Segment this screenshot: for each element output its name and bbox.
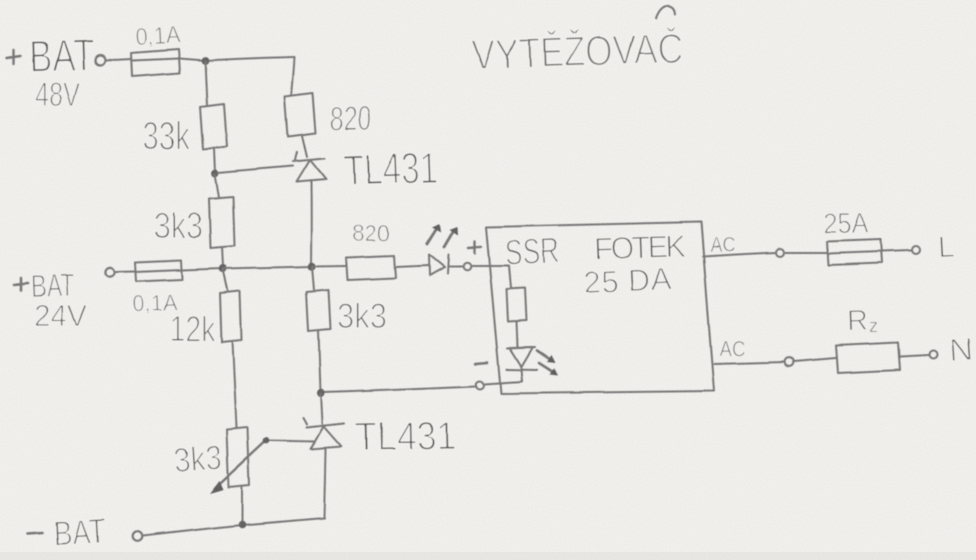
wire SSR minus to node E xyxy=(323,386,476,392)
wire R3 to TL431 U1 cathode xyxy=(302,136,307,157)
plus sign at SSR input xyxy=(468,241,481,254)
wire internal resistor to LED D2 xyxy=(517,322,518,347)
wire terminal to resistor Rz xyxy=(793,358,836,362)
internal LED D2 xyxy=(507,348,538,371)
label +BAT 48V xyxy=(29,29,95,113)
terminal N xyxy=(930,351,938,359)
SSR U3 box FOTEK 25DA xyxy=(486,222,714,394)
wire node D down to resistor R6 3k3 xyxy=(312,267,314,290)
wire node A down to resistor R1 33k xyxy=(205,61,207,105)
wire R2 to 24V rail xyxy=(222,247,223,266)
TL431 U2 xyxy=(303,418,344,519)
terminal -BAT xyxy=(132,532,142,542)
fuse F3 25A xyxy=(827,240,883,266)
wire terminal to fuse F1 xyxy=(105,59,131,60)
fuse F1 xyxy=(131,50,180,77)
wire node C to node D xyxy=(223,267,312,269)
wire U3 AC top to terminal xyxy=(703,253,776,257)
minus sign at SSR input xyxy=(476,363,488,364)
resistor R2 3k3 xyxy=(209,197,235,249)
terminal +BAT 48V xyxy=(95,55,105,65)
terminal SSR plus xyxy=(463,263,471,271)
resistor R3 820 xyxy=(285,93,316,137)
wire R1 to node B xyxy=(214,149,215,173)
TL431 U1 xyxy=(293,152,326,265)
resistor R7 820 xyxy=(346,256,396,281)
wire D2 to SSR minus terminal xyxy=(484,368,523,384)
wire F1 to corner of R3 820 xyxy=(179,57,295,61)
wire F3 to terminal L xyxy=(883,251,912,252)
LED arrows of D1 xyxy=(427,224,458,247)
junction node E (R6 / U2 cathode / SSR minus) xyxy=(317,389,325,397)
wire down to resistor R3 820 xyxy=(292,57,295,95)
internal resistor of U3 xyxy=(507,289,527,323)
minus sign of -BAT xyxy=(28,533,43,534)
wire Rz to terminal N xyxy=(900,355,929,357)
wire U3 AC bottom to terminal xyxy=(714,362,784,364)
junction node A (48V rail / 33k) xyxy=(201,57,209,65)
junction wiper node xyxy=(263,437,270,444)
wire R5 bottom to -BAT rail xyxy=(241,487,243,523)
wire down to internal resistor xyxy=(509,266,511,289)
label +BAT 24V xyxy=(30,267,87,333)
wire SSR plus into box xyxy=(471,265,509,267)
diode D1 xyxy=(429,255,449,276)
resistor Rz xyxy=(836,342,900,373)
plus sign of +BAT 48V xyxy=(7,50,21,64)
plus sign of +BAT 24V xyxy=(14,278,28,291)
resistor R4 12k xyxy=(220,291,242,343)
arrowhead of R5 wiper xyxy=(210,481,224,494)
wire R4 to potentiometer R5 xyxy=(232,341,236,428)
wire terminal to fuse F3 xyxy=(785,252,828,254)
wire node C down to resistor R4 12k xyxy=(223,269,228,291)
wire node D to resistor R7 820 xyxy=(312,265,346,268)
LED arrows of D2 xyxy=(537,351,559,377)
potentiometer R5 3k3 xyxy=(227,428,250,488)
wire -BAT rail xyxy=(142,518,325,536)
wire node B down to resistor R2 3k3 xyxy=(215,174,219,197)
wire wiper to U2 reference xyxy=(270,441,315,442)
junction node D (24V rail / 3k3 / U1 anode) xyxy=(307,262,315,270)
wire D1 to SSR plus terminal xyxy=(448,266,462,268)
wire node E to TL431 U2 cathode xyxy=(321,393,323,425)
resistor R1 33k xyxy=(200,104,227,150)
resistor R6 3k3 xyxy=(307,290,331,331)
terminal SSR minus xyxy=(476,381,484,389)
wire F2 to node C xyxy=(182,269,223,271)
wire node B to U1 reference xyxy=(218,166,293,173)
junction node F (-BAT / R5) xyxy=(238,521,246,529)
wire R6 to node E xyxy=(319,330,321,392)
terminal L xyxy=(912,246,920,254)
terminal N side 1 xyxy=(784,358,793,367)
junction node C (24V rail / 12k) xyxy=(219,265,227,273)
wire terminal to fuse F2 xyxy=(115,271,135,274)
stray pen hook mark xyxy=(656,6,675,18)
wire R7 to diode D1 xyxy=(396,266,430,268)
terminal L side 1 xyxy=(777,249,785,257)
fuse F2 xyxy=(135,261,182,282)
wiper arrow of R5 xyxy=(215,443,264,489)
junction node B (33k/3k3/U1 ref) xyxy=(211,169,219,177)
label Rz xyxy=(846,305,878,338)
terminal +BAT 24V xyxy=(105,268,114,277)
